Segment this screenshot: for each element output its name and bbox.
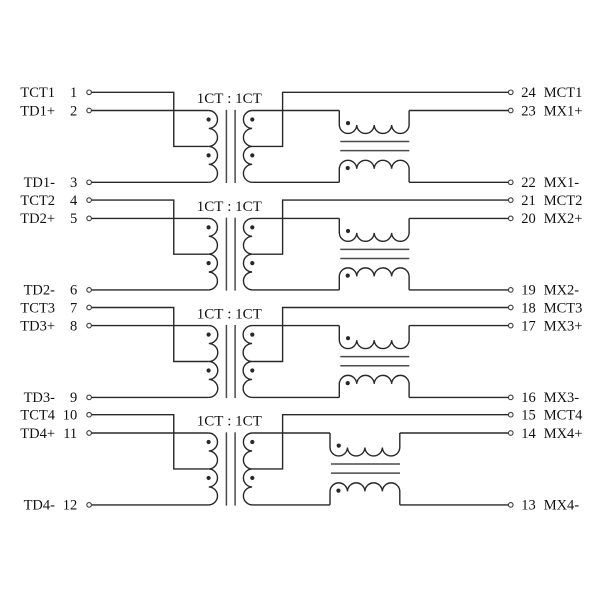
- svg-text:TD1-: TD1-: [24, 175, 56, 191]
- transformer T3 secondary winding: [243, 326, 252, 398]
- svg-text:MX3-: MX3-: [544, 390, 580, 406]
- wire T4 secondary bottom to choke L4 input: [252, 504, 330, 506]
- svg-text:2: 2: [70, 103, 77, 119]
- wire choke L1 to pin 22 (MX1-): [409, 181, 508, 183]
- transformer T2 primary winding: [209, 218, 218, 289]
- svg-text:7: 7: [70, 300, 77, 316]
- choke L3 core: [340, 357, 409, 366]
- choke L2 lower winding: [339, 268, 409, 290]
- svg-text:TCT3: TCT3: [20, 300, 55, 316]
- svg-text:15: 15: [521, 408, 536, 424]
- choke L3 upper polarity dot: [346, 336, 350, 340]
- svg-text:3: 3: [70, 175, 77, 191]
- wire T3 secondary center tap to pin 18 (MCT3): [252, 308, 508, 362]
- wire T4 secondary center tap to pin 15 (MCT4): [252, 415, 508, 469]
- pin 15 terminal: [508, 412, 513, 417]
- transformer T4 secondary polarity dot (lower half): [250, 476, 254, 480]
- choke L1 upper polarity dot: [346, 121, 350, 125]
- svg-text:MCT1: MCT1: [544, 85, 583, 101]
- svg-text:11: 11: [63, 426, 77, 442]
- transformer T2 secondary polarity dot (upper half): [250, 225, 254, 229]
- choke L1 upper winding: [339, 111, 409, 134]
- choke L4 upper winding: [330, 433, 400, 456]
- choke L2 upper polarity dot: [346, 229, 350, 233]
- choke L1 core: [340, 142, 409, 151]
- svg-text:10: 10: [63, 408, 78, 424]
- svg-text:TD3+: TD3+: [20, 318, 55, 334]
- transformer T2 secondary winding: [243, 218, 252, 289]
- transformer T1 core: [226, 110, 235, 183]
- wire pin 7 to T3 primary center tap: [92, 308, 209, 362]
- transformer T3 secondary polarity dot (lower half): [250, 368, 254, 372]
- pin 10 terminal: [87, 412, 92, 417]
- svg-text:8: 8: [70, 318, 77, 334]
- transformer T4 secondary winding: [243, 433, 252, 505]
- svg-text:13: 13: [521, 498, 536, 514]
- svg-text:TD2-: TD2-: [24, 283, 56, 299]
- choke L2 core: [340, 249, 409, 258]
- svg-text:MCT2: MCT2: [544, 193, 583, 209]
- wire pin 2 to T1 primary top: [92, 110, 209, 112]
- svg-text:19: 19: [521, 283, 536, 299]
- svg-text:TD4+: TD4+: [20, 426, 55, 442]
- svg-text:17: 17: [521, 318, 536, 334]
- transformer T3 primary polarity dot (upper half): [207, 332, 211, 336]
- svg-text:TD1+: TD1+: [20, 103, 55, 119]
- svg-text:18: 18: [521, 300, 536, 316]
- choke L3 lower winding: [339, 375, 409, 397]
- choke L3 upper winding: [339, 326, 409, 349]
- svg-text:MX4-: MX4-: [544, 498, 580, 514]
- pin 18 terminal: [508, 305, 513, 310]
- wire T3 secondary bottom to choke L3 input: [252, 396, 339, 398]
- transformer T2 secondary polarity dot (lower half): [250, 261, 254, 265]
- choke L4 upper polarity dot: [337, 444, 341, 448]
- svg-text:14: 14: [521, 426, 536, 442]
- choke L1 lower polarity dot: [346, 166, 350, 170]
- pin 9 terminal: [87, 395, 92, 400]
- wire T2 secondary top to choke L2 input: [252, 217, 339, 219]
- pin 4 terminal: [87, 198, 92, 203]
- svg-text:1: 1: [70, 85, 77, 101]
- transformer T3 secondary polarity dot (upper half): [250, 332, 254, 336]
- pin 5 terminal: [87, 216, 92, 221]
- wire choke L2 to pin 19 (MX2-): [409, 289, 508, 291]
- pin 8 terminal: [87, 323, 92, 328]
- transformer T4 primary polarity dot (upper half): [207, 440, 211, 444]
- transformer T1 primary polarity dot (upper half): [207, 117, 211, 121]
- wire pin 3 to T1 primary bottom: [92, 181, 209, 183]
- svg-text:TCT1: TCT1: [20, 85, 55, 101]
- wire pin 9 to T3 primary bottom: [92, 396, 209, 398]
- transformer T2 primary polarity dot (lower half): [207, 261, 211, 265]
- svg-text:24: 24: [521, 85, 536, 101]
- transformer T4 secondary polarity dot (upper half): [250, 440, 254, 444]
- pin 19 terminal: [508, 288, 513, 293]
- choke L2 upper winding: [339, 218, 409, 241]
- wire pin 12 to T4 primary bottom: [92, 504, 209, 506]
- svg-text:5: 5: [70, 211, 77, 227]
- transformer T3 core: [226, 325, 235, 398]
- choke L4 lower polarity dot: [336, 489, 340, 493]
- pin 24 terminal: [508, 90, 513, 95]
- choke L2 lower polarity dot: [346, 274, 350, 278]
- wire choke L2 to pin 20 (MX2+): [409, 217, 508, 219]
- wire pin 6 to T2 primary bottom: [92, 289, 209, 291]
- wire choke L4 to pin 13 (MX4-): [400, 504, 508, 506]
- choke L1 lower winding: [339, 160, 409, 182]
- svg-text:23: 23: [521, 103, 536, 119]
- svg-text:TD3-: TD3-: [24, 390, 56, 406]
- transformer T4 core: [226, 432, 235, 505]
- choke L4 lower winding: [330, 483, 400, 505]
- transformer T3 primary polarity dot (lower half): [207, 368, 211, 372]
- wire T2 secondary bottom to choke L2 input: [252, 289, 339, 291]
- pin 3 terminal: [87, 180, 92, 185]
- transformer T1 secondary polarity dot (lower half): [250, 153, 254, 157]
- pin 2 terminal: [87, 108, 92, 113]
- svg-text:TCT4: TCT4: [20, 408, 55, 424]
- pin 7 terminal: [87, 305, 92, 310]
- svg-text:MCT3: MCT3: [544, 300, 583, 316]
- pin 22 terminal: [508, 180, 513, 185]
- pin 16 terminal: [508, 395, 513, 400]
- svg-text:1CT : 1CT: 1CT : 1CT: [197, 306, 262, 322]
- svg-text:TCT2: TCT2: [20, 193, 55, 209]
- pin 21 terminal: [508, 198, 513, 203]
- svg-text:MX3+: MX3+: [544, 318, 583, 334]
- wire choke L3 to pin 17 (MX3+): [409, 325, 508, 327]
- svg-text:6: 6: [70, 283, 77, 299]
- svg-text:1CT : 1CT: 1CT : 1CT: [197, 91, 262, 107]
- pin 1 terminal: [87, 90, 92, 95]
- svg-text:MX4+: MX4+: [544, 426, 583, 442]
- transformer T1 primary winding: [209, 111, 218, 183]
- svg-text:9: 9: [70, 390, 77, 406]
- transformer T1 secondary winding: [243, 111, 252, 183]
- pin 12 terminal: [87, 503, 92, 508]
- svg-text:MX2+: MX2+: [544, 211, 583, 227]
- svg-text:TD4-: TD4-: [24, 498, 56, 514]
- transformer T4 primary polarity dot (lower half): [207, 476, 211, 480]
- wire pin 4 to T2 primary center tap: [92, 200, 209, 254]
- pin 11 terminal: [87, 431, 92, 436]
- transformer T1 primary polarity dot (lower half): [207, 153, 211, 157]
- svg-text:MCT4: MCT4: [544, 408, 583, 424]
- choke L3 lower polarity dot: [346, 381, 350, 385]
- wire pin 1 to T1 primary center tap: [92, 92, 209, 146]
- pin 6 terminal: [87, 288, 92, 293]
- svg-text:MX2-: MX2-: [544, 283, 580, 299]
- svg-text:12: 12: [63, 498, 78, 514]
- svg-text:16: 16: [521, 390, 536, 406]
- pin 23 terminal: [508, 108, 513, 113]
- svg-text:TD2+: TD2+: [20, 211, 55, 227]
- wire pin 8 to T3 primary top: [92, 325, 209, 327]
- transformer T2 primary polarity dot (upper half): [207, 225, 211, 229]
- pin 17 terminal: [508, 323, 513, 328]
- svg-text:4: 4: [70, 193, 78, 209]
- wire T3 secondary top to choke L3 input: [252, 325, 339, 327]
- svg-text:MX1+: MX1+: [544, 103, 583, 119]
- wire T4 secondary top to choke L4 input: [252, 432, 330, 434]
- svg-text:1CT : 1CT: 1CT : 1CT: [197, 414, 262, 430]
- transformer T1 secondary polarity dot (upper half): [250, 117, 254, 121]
- wire choke L4 to pin 14 (MX4+): [400, 432, 508, 434]
- svg-text:21: 21: [521, 193, 536, 209]
- wire pin 5 to T2 primary top: [92, 217, 209, 219]
- wire T1 secondary center tap to pin 24 (MCT1): [252, 92, 508, 146]
- svg-text:1CT : 1CT: 1CT : 1CT: [197, 199, 262, 215]
- wire T1 secondary top to choke L1 input: [252, 110, 339, 112]
- pin 14 terminal: [508, 431, 513, 436]
- pin 13 terminal: [508, 503, 513, 508]
- svg-text:22: 22: [521, 175, 536, 191]
- svg-text:20: 20: [521, 211, 536, 227]
- choke L4 core: [331, 464, 400, 473]
- transformer T3 primary winding: [209, 326, 218, 398]
- transformer T2 core: [226, 218, 235, 291]
- wire choke L1 to pin 23 (MX1+): [409, 110, 508, 112]
- wire choke L3 to pin 16 (MX3-): [409, 396, 508, 398]
- wire T1 secondary bottom to choke L1 input: [252, 181, 339, 183]
- transformer T4 primary winding: [209, 433, 218, 505]
- pin 20 terminal: [508, 216, 513, 221]
- wire pin 10 to T4 primary center tap: [92, 415, 209, 469]
- svg-text:MX1-: MX1-: [544, 175, 580, 191]
- wire pin 11 to T4 primary top: [92, 432, 209, 434]
- wire T2 secondary center tap to pin 21 (MCT2): [252, 200, 508, 254]
